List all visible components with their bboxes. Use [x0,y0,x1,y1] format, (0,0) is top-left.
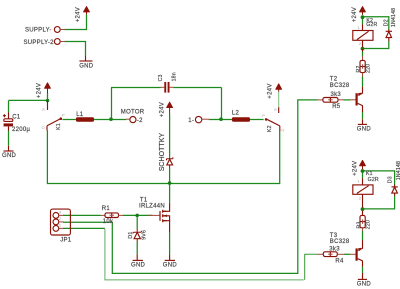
svg-text:T1: T1 [140,198,148,204]
svg-text:-2: -2 [137,118,143,124]
svg-text:P: P [262,113,265,118]
svg-text:R2: R2 [356,65,362,72]
svg-text:1N4148: 1N4148 [396,161,400,180]
svg-text:GND: GND [79,63,94,69]
svg-text:MOTOR: MOTOR [121,109,145,115]
svg-text:220: 220 [366,64,372,73]
svg-text:SUPPLY-: SUPPLY- [25,28,52,34]
svg-text:D3: D3 [388,176,394,183]
svg-text:R5: R5 [332,104,341,110]
svg-text:+24V: +24V [268,83,274,98]
svg-text:R1: R1 [102,206,111,212]
svg-text:JP1: JP1 [60,237,72,243]
svg-text:T2: T2 [330,77,338,83]
svg-text:G2R: G2R [368,177,379,183]
svg-text:GND: GND [2,153,17,159]
svg-text:BC328: BC328 [330,239,350,245]
svg-text:+24V: +24V [159,102,165,117]
svg-text:10k: 10k [103,219,114,225]
svg-text:3k3: 3k3 [331,92,342,98]
svg-text:G2R: G2R [366,22,377,28]
svg-text:L2: L2 [232,110,240,116]
svg-text:K2: K2 [267,125,273,132]
svg-text:+24V: +24V [37,83,43,98]
svg-text:+24V: +24V [352,161,358,176]
svg-text:3k3: 3k3 [329,246,340,252]
svg-text:O: O [42,125,45,130]
svg-text:S: S [41,108,46,111]
svg-text:C3: C3 [158,74,164,81]
svg-text:K1: K1 [366,171,373,177]
svg-text:K1: K1 [56,123,62,130]
svg-text:IRLZ44N: IRLZ44N [139,204,165,210]
svg-text:L1: L1 [76,112,84,118]
svg-text:1-: 1- [188,118,194,124]
svg-text:R3: R3 [357,221,363,228]
svg-text:2200µ: 2200µ [12,127,30,133]
svg-text:GND: GND [131,263,146,269]
svg-text:D1: D1 [128,232,134,239]
svg-text:SUPPLY-2: SUPPLY-2 [24,40,55,46]
svg-text:GND: GND [357,127,372,133]
svg-text:D2: D2 [384,19,390,26]
svg-text:C1: C1 [12,114,21,120]
svg-text:SCHOTTKY: SCHOTTKY [159,133,166,172]
svg-text:T3: T3 [330,233,338,239]
svg-text:GND: GND [163,263,178,269]
svg-text:1N4148: 1N4148 [391,8,397,27]
svg-text:R4: R4 [335,258,344,264]
svg-text:220: 220 [366,220,372,229]
svg-text:+24V: +24V [76,7,82,22]
svg-text:BC328: BC328 [330,83,350,89]
svg-text:18n: 18n [172,72,178,81]
svg-text:O: O [281,128,284,133]
svg-text:P: P [62,113,65,118]
svg-text:+24V: +24V [352,7,358,22]
svg-text:GND: GND [357,282,372,288]
svg-text:9V6: 9V6 [142,230,148,240]
svg-text:S: S [272,108,277,111]
